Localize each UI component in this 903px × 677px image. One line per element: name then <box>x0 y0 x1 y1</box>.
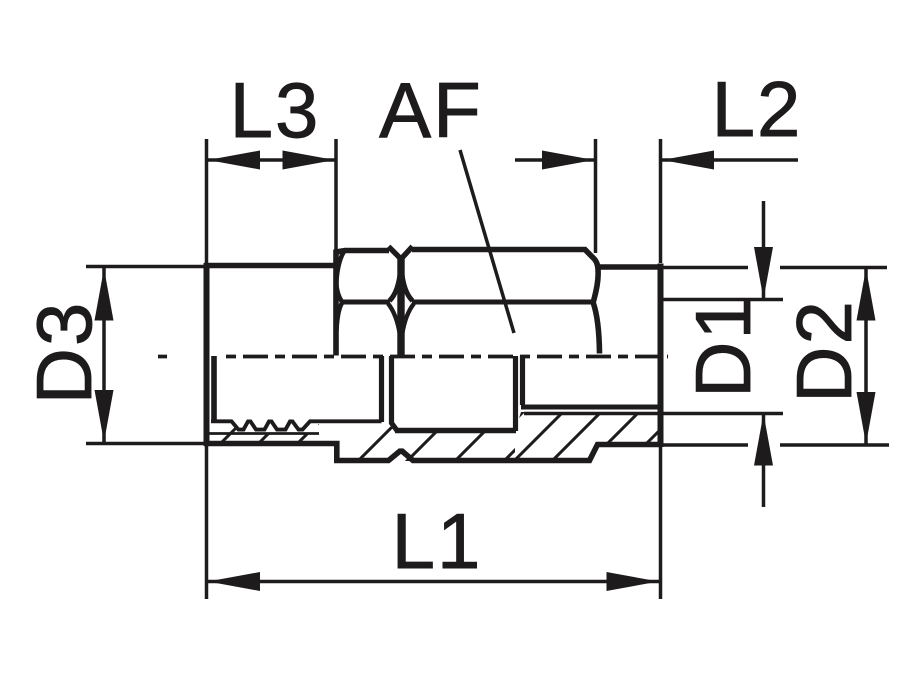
extension line D3 bottom <box>86 442 205 446</box>
bore left wall <box>211 356 217 420</box>
hatching left strip <box>214 406 375 450</box>
dimension tail L2 left with arrow <box>515 158 596 162</box>
hatching right strip <box>470 408 682 465</box>
hex left segment tangent line <box>341 300 390 305</box>
bore bottom with thread teeth <box>211 421 382 429</box>
body left face <box>204 263 210 446</box>
arrow D1 up (outside below) <box>754 414 773 466</box>
hex left face arc lower <box>336 302 342 331</box>
wall C middle bore right <box>513 356 518 431</box>
body top edge left section <box>204 263 337 269</box>
hex junction right flare arc <box>402 270 413 301</box>
dimension tail L2 right with arrow <box>660 158 798 162</box>
extension line L2 left <box>594 139 598 253</box>
extension line D2 bottom <box>663 443 748 447</box>
hex junction stem <box>397 257 404 356</box>
dimension line D3 <box>102 267 106 443</box>
svg-text:L3: L3 <box>230 66 321 154</box>
right bore thread crest line <box>521 405 658 410</box>
extension line D1 bottom (continues thread thin line) <box>524 412 783 416</box>
extension line L3 right <box>334 139 338 252</box>
arrow D3 down <box>95 390 114 442</box>
extension line L1 left <box>205 446 209 599</box>
arrow D2 up <box>857 269 876 321</box>
hex junction left funnel arc <box>388 304 400 335</box>
extension line D1 top <box>663 298 783 302</box>
hatching middle strip <box>354 415 550 465</box>
extension line L3 left <box>205 139 209 263</box>
middle bore bottom <box>395 428 516 434</box>
hex junction left flare arc <box>390 270 401 301</box>
centerline <box>158 355 167 359</box>
extension line L1 right <box>659 447 663 599</box>
body bottom outline <box>204 444 661 461</box>
hex right segment tangent line <box>412 300 591 305</box>
hex left face arc upper <box>336 252 344 285</box>
thread major diameter thin line <box>209 432 319 435</box>
svg-text:L2: L2 <box>712 65 803 153</box>
dimension line L1 <box>207 580 661 584</box>
arrow L1 left <box>208 572 260 591</box>
hex junction right funnel arc <box>402 304 414 335</box>
dimension line D2 <box>864 268 868 444</box>
body top edge right section <box>598 264 663 270</box>
hex left face arc mid <box>336 284 342 302</box>
svg-text:L1: L1 <box>392 497 483 585</box>
svg-text:D1: D1 <box>679 294 767 398</box>
wall A thread bore end <box>379 356 384 422</box>
dimension line L3 <box>207 158 337 162</box>
svg-text:D2: D2 <box>780 299 868 403</box>
arrow D2 down <box>857 392 876 444</box>
arrow L3 left <box>208 151 260 170</box>
svg-text:AF: AF <box>379 66 483 154</box>
arrow L1 right <box>607 572 659 591</box>
extension line D2 top <box>663 266 748 270</box>
extension line D3 top <box>86 265 205 269</box>
wall B middle bore left <box>392 356 398 431</box>
svg-text:D3: D3 <box>20 301 108 405</box>
hex left segment outline <box>336 251 389 356</box>
hex junction V notch right <box>401 247 413 260</box>
hex right segment outline <box>412 250 600 354</box>
arrow L3 right <box>283 151 335 170</box>
hex junction V notch left <box>389 247 402 260</box>
wall D right bore start <box>520 356 525 405</box>
arrow D1 down (outside above) <box>754 247 773 299</box>
extension line L2 right <box>659 139 663 263</box>
arrow D3 up <box>95 269 114 321</box>
leader line AF <box>460 150 514 333</box>
dimension line D1 <box>762 201 766 299</box>
body right face <box>658 264 664 448</box>
